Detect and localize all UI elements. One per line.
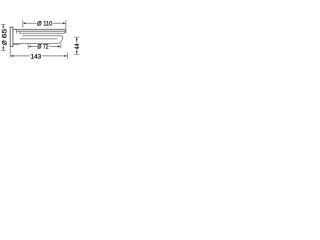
svg-text:Ø: Ø xyxy=(2,40,8,45)
bracket step xyxy=(17,29,20,33)
wall plate xyxy=(10,27,13,46)
dim 44 top tick xyxy=(74,36,79,38)
bowl contour lower xyxy=(20,38,57,40)
dish second line xyxy=(17,30,66,32)
dim 110 right extension xyxy=(65,20,67,33)
arrow dim65 down xyxy=(2,47,4,50)
dim 65 top tick xyxy=(1,24,5,26)
arrow dim72 left xyxy=(28,45,31,47)
label Ø 110 xyxy=(37,20,52,27)
arrow dim110 left xyxy=(23,22,26,24)
svg-text:Ø: Ø xyxy=(37,44,41,50)
dim 72 left extension xyxy=(27,44,29,49)
dim 44 bottom tick xyxy=(74,53,79,55)
svg-text:Ø: Ø xyxy=(37,20,42,27)
dim 143 left extension xyxy=(9,47,11,57)
dim 143 right extension xyxy=(66,53,68,59)
arrow dim44 down xyxy=(76,51,78,54)
dim 65 vertical line xyxy=(2,27,4,48)
dim 65 bottom tick xyxy=(1,49,5,51)
dish rim underside xyxy=(20,32,66,34)
dim 72 right extension xyxy=(60,43,62,48)
arrow dim143 right xyxy=(64,55,67,57)
arrow dim143 left xyxy=(10,55,13,57)
svg-text:65: 65 xyxy=(2,28,8,38)
svg-text:44: 44 xyxy=(75,43,80,49)
label Ø 72 xyxy=(37,44,49,50)
dish top line xyxy=(13,28,65,30)
dim 72 line xyxy=(32,45,59,47)
dim 110 line xyxy=(25,22,63,24)
dim 143 line xyxy=(13,55,65,57)
svg-text:143: 143 xyxy=(31,54,42,60)
bowl bottom line xyxy=(13,42,57,44)
dim 110 left extension xyxy=(22,20,24,28)
svg-text:72: 72 xyxy=(43,44,49,50)
dim 44 vertical line xyxy=(76,40,78,52)
bowl contour upper xyxy=(23,36,63,44)
arrow dim65 up xyxy=(2,25,4,28)
arrow dim44 up xyxy=(76,37,78,40)
lower arm line xyxy=(13,43,20,45)
arrow dim110 right xyxy=(63,22,66,24)
arrow dim72 right xyxy=(58,45,61,47)
label Ø 65 rotated xyxy=(2,28,8,45)
dish front cap xyxy=(64,29,66,31)
svg-text:110: 110 xyxy=(43,20,52,27)
